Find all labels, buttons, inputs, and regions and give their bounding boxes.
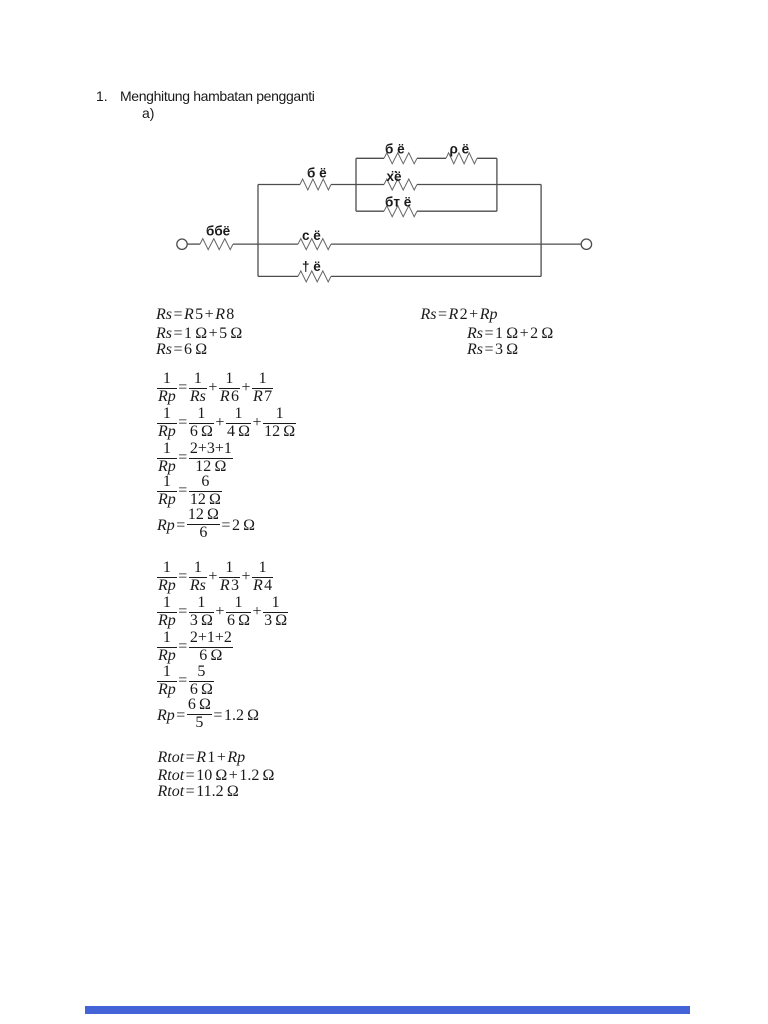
svg-text:ббё: ббё <box>206 224 231 239</box>
svg-text:† ё: † ё <box>302 259 321 274</box>
svg-text:б ё: б ё <box>385 142 405 157</box>
svg-text:бт ё: бт ё <box>385 195 412 210</box>
svg-text:с ё: с ё <box>302 228 321 243</box>
svg-text:б ё: б ё <box>307 166 327 181</box>
svg-text:ρ ё: ρ ё <box>450 142 470 157</box>
svg-text:х̈ё: х̈ё <box>387 169 403 184</box>
